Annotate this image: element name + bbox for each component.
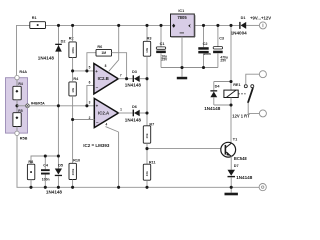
junction dot (31,187.3) (29, 186, 32, 189)
svg-text:C2: C2 (203, 42, 208, 46)
wire emitter (230, 156, 232, 169)
svg-text:–: – (96, 120, 99, 125)
svg-text:10k: 10k (145, 171, 149, 176)
ground symbol mid (177, 68, 187, 80)
svg-text:R4: R4 (18, 82, 22, 86)
svg-text:+: + (95, 69, 98, 74)
junction dot (147,148.6) (145, 147, 148, 150)
junction dot (118.6,187.3) (117, 186, 120, 189)
wire mid ground (161, 67, 218, 69)
wire D4 top stub (214, 81, 231, 83)
diode D5 (46, 163, 63, 194)
op-amp IC2.A (89, 98, 123, 127)
junction dot (203.5,25.4) (202, 24, 205, 27)
svg-text:8: 8 (105, 64, 107, 68)
junction dot (147,25.4) (145, 24, 148, 27)
svg-text:R1: R1 (32, 16, 37, 20)
junction dot (161,25.4) (159, 24, 162, 27)
junction dot (72.6,119.5) (71, 118, 74, 121)
wire RC group top (31, 156, 58, 164)
resistor R8 (27, 160, 34, 188)
svg-text:–: – (96, 85, 99, 90)
wire top rail left (17, 25, 30, 75)
diode D2 (38, 25, 66, 105)
svg-text:7: 7 (120, 73, 122, 77)
IC1 7805 (171, 9, 196, 68)
svg-text:R10: R10 (73, 158, 80, 162)
svg-text:C3: C3 (219, 37, 224, 41)
wire base row (147, 148, 221, 150)
wire switch bottom (248, 103, 259, 114)
svg-text:BC548: BC548 (234, 156, 247, 161)
junction dot (231,81.5) (229, 80, 232, 83)
svg-text:1N4148: 1N4148 (236, 175, 253, 180)
svg-text:1: 1 (120, 107, 122, 111)
svg-text:100k: 100k (71, 47, 75, 54)
capacitor C3 (213, 25, 228, 67)
junction dot (231,25.4) (229, 24, 232, 27)
wire D4 bottom stub (214, 104, 231, 106)
svg-text:1N4148: 1N4148 (125, 83, 142, 88)
junction dot (72.6,25.4) (71, 24, 74, 27)
svg-text:100k: 100k (71, 168, 75, 175)
svg-text:1M: 1M (101, 51, 106, 55)
relay contact dashes (238, 93, 245, 95)
svg-text:R4B/R5A: R4B/R5A (31, 102, 45, 106)
wire pin2 row (73, 119, 95, 121)
svg-text:6: 6 (89, 81, 91, 85)
svg-text:10k: 10k (145, 133, 149, 138)
svg-text:RE1: RE1 (233, 83, 240, 87)
terminal gnd (259, 184, 266, 191)
junction dot (147,78.7) (145, 77, 148, 80)
svg-text:3: 3 (89, 100, 91, 104)
svg-text:25V: 25V (220, 59, 227, 63)
resistor R7 (143, 122, 154, 148)
relay RE1 coil (224, 83, 241, 97)
wire pin6 stub (87, 85, 94, 105)
junction dot (147,113) (145, 111, 148, 114)
diode D6 (125, 105, 147, 122)
junction dot (231,105) (229, 103, 232, 106)
junction dot (231.2,187.3) (230, 186, 233, 189)
resistor R2 (69, 25, 77, 71)
svg-text:1N4148: 1N4148 (125, 117, 142, 122)
resistor R11 (143, 149, 155, 188)
wire pin8 supply (105, 25, 119, 71)
svg-text:D3: D3 (132, 70, 137, 74)
svg-text:D2: D2 (61, 40, 66, 44)
capacitor C2 (198, 25, 211, 67)
capacitor C4 (41, 156, 50, 187)
svg-text:D7: D7 (234, 164, 239, 168)
wire sensor row (29, 105, 94, 107)
svg-text:1N4148: 1N4148 (204, 106, 221, 111)
wire top rail right (194, 24, 239, 26)
junction dot (45.3,187.3) (44, 186, 47, 189)
sensor box (6, 70, 46, 188)
diode D3 (125, 70, 147, 87)
switch contact b (251, 85, 254, 88)
svg-text:R4A: R4A (19, 70, 27, 74)
wire IC2.B output (118, 78, 133, 80)
resistor R3 (143, 25, 151, 125)
junction dot (86.9,105.8) (85, 104, 88, 107)
svg-text:IC1: IC1 (178, 9, 184, 13)
transistor T1 (221, 138, 248, 162)
junction dot (126.6,78.7) (125, 77, 128, 80)
resistor R4 (69, 71, 79, 163)
svg-text:+9V...+12V: +9V...+12V (250, 16, 271, 21)
resistor R6 (96, 45, 112, 56)
svg-text:D6: D6 (132, 105, 137, 109)
junction dot (45.3,156) (44, 154, 47, 157)
svg-text:12V 1 RT: 12V 1 RT (232, 114, 250, 119)
junction dot (58.5,25.4) (57, 24, 60, 27)
op-amp IC2.B (89, 64, 122, 94)
node X-circle sensor output (26, 104, 30, 108)
svg-text:R6: R6 (97, 45, 102, 49)
svg-text:5: 5 (89, 66, 91, 70)
svg-text:R3: R3 (147, 36, 152, 40)
svg-text:10k: 10k (71, 87, 75, 92)
svg-text:D5: D5 (58, 163, 63, 167)
wire relay to collector (230, 98, 232, 143)
wire R6 feedback right (112, 53, 127, 79)
svg-text:R5B: R5B (20, 136, 28, 140)
terminal switch top (259, 71, 266, 78)
switch contact a (244, 85, 247, 88)
terminal +12V (259, 22, 266, 29)
junction dot (58.4,187.3) (57, 186, 60, 189)
wire top rail mid (46, 24, 171, 26)
junction dot (182,67.5) (180, 66, 183, 69)
diode D4 (204, 82, 221, 111)
sensor element R5a (13, 113, 21, 127)
svg-text:D1: D1 (241, 16, 246, 20)
capacitor C1 (156, 25, 168, 67)
svg-text:T1: T1 (233, 138, 237, 142)
node sensor mid (15, 104, 18, 107)
wire pin5 row (73, 70, 94, 72)
svg-text:4: 4 (106, 123, 108, 127)
junction dot (86.9,70.9) (85, 69, 88, 72)
junction dot (72.6,70.9) (71, 69, 74, 72)
junction dot (217.9,25.4) (216, 24, 219, 27)
junction dot (72.6,187.3) (71, 186, 74, 189)
terminal switch bottom (259, 110, 266, 117)
resistor R1 (30, 16, 46, 28)
svg-text:R8: R8 (28, 160, 33, 164)
svg-text:100n: 100n (42, 178, 50, 182)
svg-text:100n: 100n (203, 52, 211, 56)
wire relay feed (230, 25, 232, 90)
wire IC2.A output (118, 112, 132, 114)
svg-text:IC2 = LM393: IC2 = LM393 (83, 143, 110, 148)
junction dot (147,187.3) (145, 186, 148, 189)
junction dot (58.4,105.8) (57, 104, 60, 107)
junction dot (118.7,25.4) (117, 24, 120, 27)
wire switch top (246, 74, 260, 85)
wire bottom rail (17, 186, 260, 188)
sensor element R4a (13, 86, 21, 100)
wire D1 to terminal (246, 24, 259, 26)
svg-text:1N4004: 1N4004 (231, 30, 248, 35)
svg-text:C1: C1 (160, 42, 165, 46)
svg-text:7805: 7805 (177, 15, 187, 20)
junction dot (58.4,156) (57, 154, 60, 157)
resistor R10 (69, 158, 80, 187)
svg-text:IC2.B: IC2.B (98, 76, 109, 81)
wire D5 to sensor node (57, 106, 59, 169)
switch arm (248, 89, 253, 103)
svg-text:1N4148: 1N4148 (38, 56, 55, 61)
svg-text:1N4148: 1N4148 (46, 189, 63, 194)
svg-text:R5: R5 (18, 109, 22, 113)
svg-text:10k: 10k (145, 47, 149, 52)
wire pin4 ground (106, 127, 119, 188)
svg-text:+: + (96, 104, 99, 109)
ground symbol bottom (225, 187, 238, 195)
svg-text:25V: 25V (161, 58, 168, 62)
junction dot (203.5,67.5) (202, 66, 205, 69)
diode D1 (231, 16, 248, 35)
diode D7 (228, 164, 253, 187)
svg-text:IC2.A: IC2.A (98, 111, 110, 116)
wire R6 feedback left (87, 53, 96, 71)
